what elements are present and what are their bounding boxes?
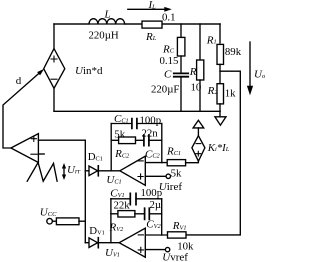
resistor R2 1k [217, 84, 224, 104]
sawtooth ramp symbol [27, 163, 57, 182]
UC1 plus sign [138, 174, 143, 179]
opamp UC1 triangle [120, 156, 146, 185]
ground bus [54, 110, 220, 112]
diode DC1 [85, 170, 89, 172]
ramp double arrow Urr [63, 167, 65, 177]
ground symbol above Ki source [193, 120, 204, 128]
svg-text:DV1: DV1 [89, 225, 105, 237]
wire comparator plus input to bus [38, 139, 85, 141]
feedback wire from divider to RV1 [186, 71, 240, 235]
wire RV2 to CV2 [135, 213, 145, 215]
arrow IL [128, 8, 165, 10]
svg-text:IL: IL [148, 0, 157, 11]
svg-text:CV2: CV2 [146, 219, 161, 231]
arrowhead d [37, 69, 44, 76]
wire R branch top [199, 24, 201, 60]
svg-text:Uin*d: Uin*d [75, 65, 103, 77]
resistor RV2 22k [118, 211, 135, 217]
terminal Ucc [47, 218, 53, 224]
wire R2 to bus [219, 104, 221, 111]
svg-text:0.1: 0.1 [162, 11, 176, 23]
wire R to bus [199, 80, 201, 111]
svg-text:2µ: 2µ [150, 199, 162, 211]
wire CC1 branch left [111, 123, 132, 125]
wire d output [3, 71, 42, 148]
svg-text:5k: 5k [114, 128, 125, 140]
svg-text:220µF: 220µF [151, 83, 179, 95]
ground stub below R2 [219, 111, 221, 117]
wire UC1 plus input [145, 175, 166, 177]
resistor RC 0.15 [177, 37, 185, 56]
svg-text:5k: 5k [171, 167, 182, 179]
resistor RC2 5k [119, 137, 136, 144]
opamp UV1 feedback left rail [110, 199, 112, 243]
plus sign in Ki source [196, 151, 201, 156]
wire RC2 branch left [111, 139, 118, 141]
comparator plus [31, 136, 36, 141]
svg-text:1k: 1k [225, 88, 236, 100]
wire RC branch top [180, 24, 182, 38]
wire resistor to bus [79, 220, 85, 222]
arrow Uo [249, 42, 251, 87]
wire DV1 to UV1 output [98, 242, 119, 244]
wire top rail [54, 23, 220, 25]
wire Ucc to resistor [52, 220, 56, 222]
wire UC1 minus input [145, 162, 167, 164]
svg-text:Uiref: Uiref [159, 181, 183, 193]
wire R1 branch top [219, 24, 221, 43]
resistor R1 89k [217, 44, 224, 64]
wire DC1 to UC1 output [98, 170, 120, 172]
UV1 plus sign [138, 247, 143, 252]
wire UV1 minus input [145, 234, 167, 236]
svg-text:22k: 22k [114, 199, 131, 211]
svg-text:100p: 100p [140, 114, 162, 126]
wire ground to Ki source [197, 128, 199, 136]
wire RC2 to CC2 [136, 139, 144, 141]
svg-text:Ki*IL: Ki*IL [207, 142, 230, 154]
svg-text:UC1: UC1 [106, 174, 121, 186]
resistor RC1 5k [167, 160, 185, 166]
ground symbol [215, 117, 226, 125]
svg-text:Uvref: Uvref [162, 252, 188, 262]
capacitor CV1 100p [130, 193, 136, 204]
svg-text:RC2: RC2 [114, 148, 130, 160]
wire source bottom to ground bus [53, 88, 55, 111]
source Uin*d diamond [44, 49, 65, 89]
opamp UV1 feedback right rail [161, 199, 163, 235]
wire UV1 plus input [145, 249, 165, 251]
svg-text:L: L [104, 8, 111, 20]
plus sign in source [51, 56, 57, 62]
svg-text:220µH: 220µH [89, 30, 119, 42]
wire source top stub [53, 24, 55, 49]
inductor L coil [54, 19, 125, 24]
wire RL to node [163, 23, 221, 25]
terminal Uvref [165, 247, 169, 251]
svg-text:DC1: DC1 [88, 151, 103, 163]
opamp UV1 triangle [119, 228, 145, 257]
comparator minus [31, 153, 37, 155]
svg-text:CV1: CV1 [110, 188, 124, 200]
svg-text:R: R [189, 66, 197, 78]
svg-text:UV1: UV1 [105, 247, 120, 259]
svg-text:10: 10 [191, 81, 202, 93]
diode DV1 [85, 242, 89, 244]
minus sign in Ki source [196, 143, 201, 145]
capacitor CC2 22n [144, 135, 149, 146]
svg-text:0.15: 0.15 [160, 55, 179, 67]
capacitor C 220uF [174, 73, 188, 76]
opamp UC1 feedback left rail [110, 124, 112, 171]
capacitor CV2 2u [145, 208, 150, 219]
comparator triangle [11, 134, 39, 163]
UV1 minus sign [138, 234, 143, 236]
wire RC to C [180, 56, 182, 73]
resistor Ucc bias [56, 218, 79, 225]
source Ki*IL diamond [192, 136, 205, 162]
svg-text:89k: 89k [225, 46, 242, 58]
svg-text:CC2: CC2 [145, 148, 161, 160]
UC1 minus sign [138, 160, 143, 162]
svg-text:CC1: CC1 [114, 113, 129, 125]
wire RC1 to Ki source [186, 161, 199, 163]
resistor RV1 10k [168, 232, 187, 238]
control bus vertical [84, 140, 86, 243]
svg-text:UCC: UCC [40, 207, 57, 219]
capacitor CC1 100p [132, 119, 137, 129]
wire inductor to RL [125, 23, 142, 25]
wire CV1 to right rail [136, 198, 162, 200]
svg-text:RV1: RV1 [172, 220, 187, 232]
wire CC2 to right rail [149, 139, 162, 141]
wire CC1 to right rail [137, 123, 162, 125]
svg-text:22n: 22n [142, 128, 159, 140]
svg-text:Urr: Urr [67, 164, 81, 176]
resistor RL 0.1 [142, 21, 162, 28]
svg-text:Uo: Uo [254, 69, 265, 81]
svg-text:d: d [16, 75, 22, 87]
opamp UC1 feedback right rail [161, 124, 163, 163]
svg-text:RC: RC [162, 43, 175, 55]
resistor R 10 [197, 60, 204, 80]
svg-text:RV2: RV2 [109, 222, 125, 234]
minus sign in source [51, 78, 57, 80]
svg-text:RL: RL [145, 31, 157, 43]
wire R1 to R2 [219, 64, 221, 83]
wire CV1 branch left [111, 198, 130, 200]
terminal Uiref [166, 174, 170, 178]
wire comparator minus input stub [38, 153, 44, 155]
wire RV2 branch left [111, 213, 118, 215]
wire CV2 to right rail [149, 213, 161, 215]
svg-text:RC1: RC1 [166, 146, 181, 158]
svg-text:R1: R1 [206, 34, 217, 46]
wire C to bus [180, 78, 182, 112]
svg-text:100p: 100p [141, 187, 163, 199]
svg-text:C: C [164, 68, 172, 80]
